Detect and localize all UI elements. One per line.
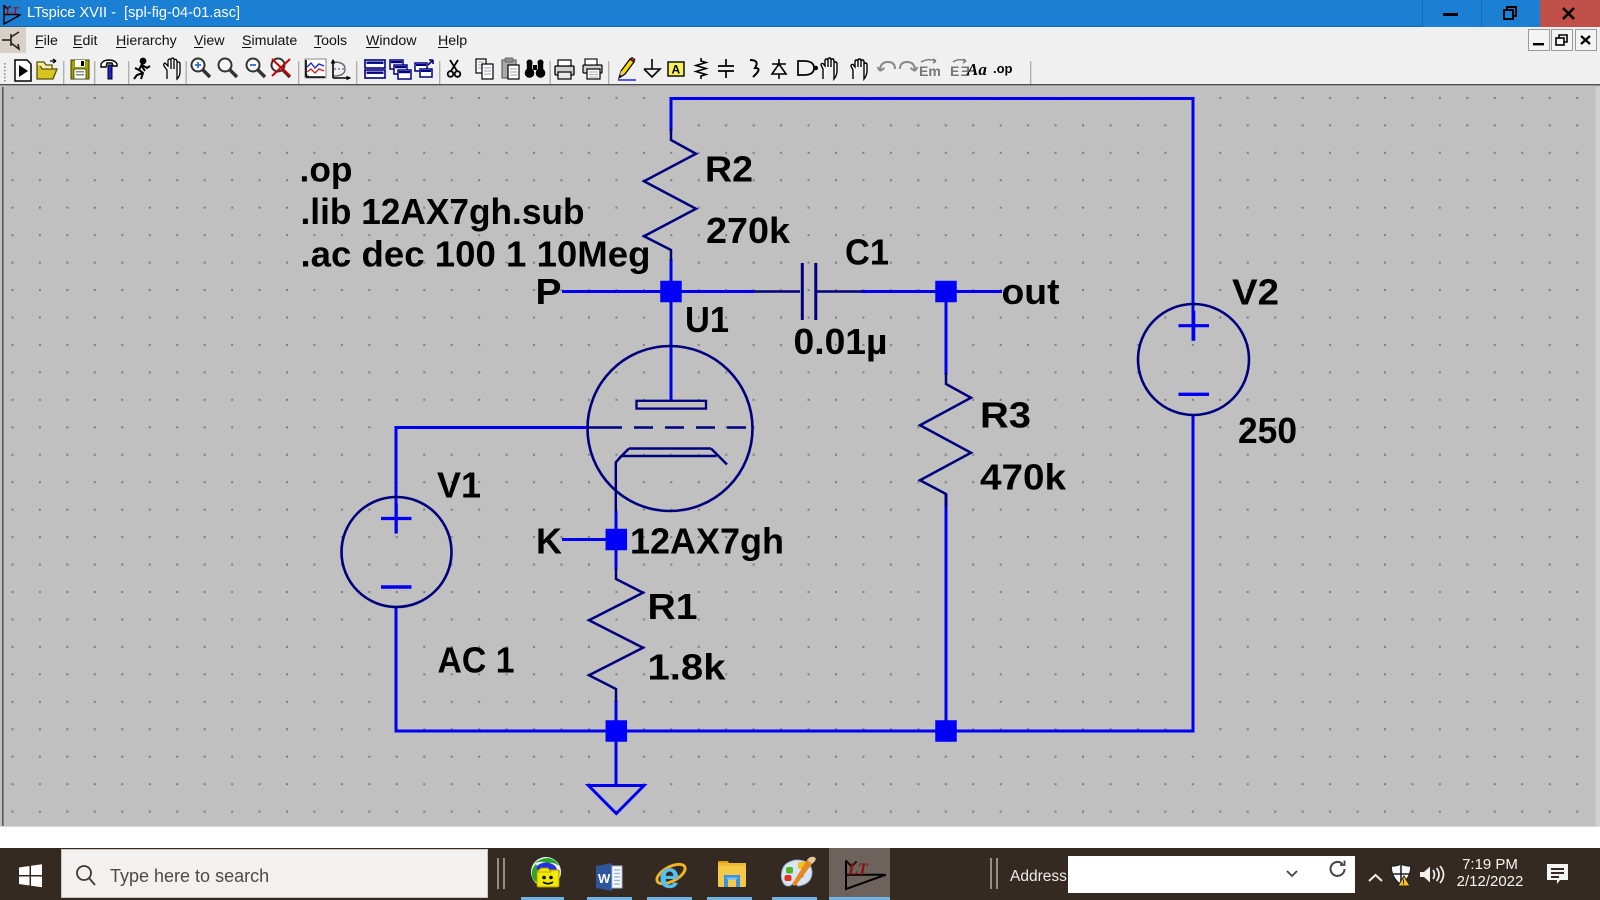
svg-text:K: K [536,521,562,562]
svg-text:1.8k: 1.8k [648,647,727,688]
svg-text:470k: 470k [980,457,1067,498]
svg-text:.lib 12AX7gh.sub: .lib 12AX7gh.sub [301,191,585,232]
svg-text:V2: V2 [1232,272,1279,313]
svg-text:250: 250 [1238,410,1297,451]
svg-text:W: W [598,871,611,886]
svg-text:270k: 270k [706,210,791,251]
svg-text:AC 1: AC 1 [438,640,515,681]
svg-text:P: P [536,271,562,312]
svg-text:!: ! [1402,880,1404,887]
svg-text:12AX7gh: 12AX7gh [630,521,784,562]
svg-text:V1: V1 [437,465,481,506]
svg-text:out: out [1002,271,1060,312]
svg-text:LT: LT [847,860,869,879]
svg-text:.ac dec 100 1 10Meg: .ac dec 100 1 10Meg [301,234,651,275]
svg-text:.op: .op [300,151,353,190]
svg-text:R3: R3 [980,395,1031,436]
svg-text:U1: U1 [685,299,729,340]
svg-text:R2: R2 [705,149,753,190]
svg-text:C1: C1 [845,232,889,273]
svg-text:R1: R1 [648,586,698,627]
svg-text:0.01µ: 0.01µ [794,321,888,362]
svg-text:e: e [659,855,680,896]
